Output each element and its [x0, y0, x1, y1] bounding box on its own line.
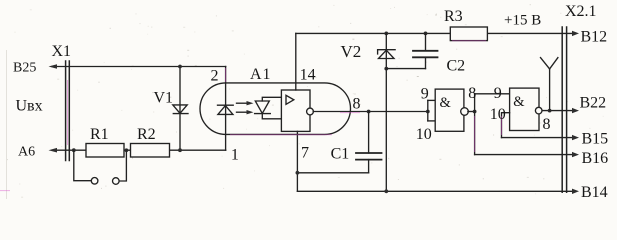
node V2 on bottom rail	[384, 189, 388, 193]
svg-text:Uвх: Uвх	[16, 98, 43, 115]
node C2 top on rail	[424, 32, 428, 36]
light arrow 2	[237, 110, 254, 114]
diode V1 vertical wire	[179, 67, 181, 151]
zener V2 vertical wire	[385, 33, 387, 191]
output inversion bubble of A1	[307, 108, 314, 115]
LED of A1	[218, 105, 234, 114]
light arrow 1	[237, 101, 254, 105]
svg-text:C2: C2	[447, 58, 466, 75]
resistor R1	[86, 144, 124, 158]
svg-text:&: &	[440, 95, 452, 111]
jumper contacts wire (right drop)	[119, 150, 126, 181]
arrow into B16	[572, 152, 579, 157]
svg-text:R2: R2	[137, 126, 156, 143]
svg-text:X1: X1	[52, 43, 72, 60]
node on B22 wire	[548, 109, 552, 113]
pin B25 arrow	[49, 64, 58, 69]
connector X2.1 (double line)	[562, 27, 566, 192]
bottom ground rail	[297, 190, 571, 192]
svg-text:А6: А6	[18, 145, 35, 160]
svg-text:В15: В15	[582, 131, 609, 148]
NAND gate D1.1 box	[435, 89, 464, 131]
svg-text:8: 8	[468, 85, 476, 102]
svg-text:В14: В14	[581, 184, 608, 199]
svg-text:А1: А1	[250, 66, 272, 83]
node gate D1.1 output	[473, 110, 477, 114]
svg-text:8: 8	[543, 116, 551, 133]
svg-text:В16: В16	[582, 150, 609, 167]
NAND gate D1.2 box	[510, 88, 539, 130]
jumper contact circle right	[113, 178, 120, 185]
svg-text:&: &	[513, 94, 525, 110]
resistor R2	[131, 144, 170, 158]
diode V1	[173, 105, 188, 114]
wire to gate D1.2 pin 9	[475, 93, 510, 95]
svg-text:В25: В25	[13, 60, 36, 75]
arrow into B14	[572, 189, 579, 194]
arrow into B22	[572, 108, 579, 113]
resistor R3	[450, 27, 487, 41]
jumper contact circle left	[91, 178, 98, 185]
wire gate D1.2 output to B22	[543, 110, 572, 112]
svg-text:9: 9	[494, 85, 502, 102]
photodiode of A1	[255, 97, 282, 119]
svg-text:R1: R1	[90, 126, 109, 143]
wire B16 row	[475, 154, 572, 156]
magenta scan artifacts	[0, 41, 502, 191]
svg-text:14: 14	[300, 67, 316, 84]
arrow into B12	[572, 31, 579, 36]
connector X1 (double line)	[66, 61, 70, 161]
svg-text:+15 В: +15 В	[504, 13, 541, 29]
zener diode V2	[378, 50, 396, 59]
wire B25 row	[52, 66, 226, 68]
page fold faint line	[6, 50, 8, 199]
svg-text:X2.1: X2.1	[565, 3, 597, 20]
svg-text:В12: В12	[581, 28, 608, 45]
buffer triangle symbol	[286, 95, 294, 104]
svg-text:R3: R3	[444, 8, 463, 25]
arrow into B15	[572, 135, 579, 140]
jumper contacts wire (left drop)	[74, 150, 91, 181]
pin A6 arrow	[49, 148, 58, 153]
svg-text:10: 10	[416, 126, 432, 143]
capacitor C1	[296, 110, 382, 175]
svg-text:V1: V1	[154, 89, 174, 106]
node junction left of R1	[72, 148, 76, 152]
gate D1.1 output bubble	[461, 108, 469, 116]
node V1 top	[178, 65, 182, 69]
scan noise speckles	[6, 4, 604, 198]
node V2/C2 bottom junction	[384, 67, 388, 71]
top +15V rail	[296, 32, 451, 34]
antenna stub symbol	[541, 58, 558, 111]
wire pin 8 output row	[313, 111, 428, 113]
svg-text:C1: C1	[331, 145, 350, 162]
node junction between R1 and R2	[125, 148, 129, 152]
wire pin 14 vertical	[295, 33, 297, 90]
gate D1.2 pin 10 wire	[502, 113, 510, 138]
node V2 top on rail	[384, 32, 388, 36]
wire pin 7 vertical	[296, 131, 298, 191]
output buffer box of A1	[281, 90, 310, 131]
svg-text:В22: В22	[580, 95, 607, 112]
wire pin 2 / pin 1 vertical	[225, 67, 227, 151]
gate D1.1 input junction	[426, 110, 430, 114]
svg-text:V2: V2	[341, 42, 362, 61]
capacitor C2	[386, 33, 437, 68]
node V1 bottom	[178, 148, 182, 152]
svg-text:8: 8	[353, 96, 361, 113]
wire A6 row	[52, 149, 226, 151]
wire output branch vertical	[474, 94, 476, 155]
svg-text:9: 9	[421, 86, 429, 103]
svg-text:7: 7	[301, 145, 309, 162]
optocoupler A1 body (stadium)	[200, 83, 351, 134]
wire B15 row	[502, 137, 572, 139]
svg-text:1: 1	[231, 146, 239, 163]
gate D1.2 output bubble	[535, 107, 542, 114]
svg-text:10: 10	[490, 106, 506, 123]
gate D1.1 input fork	[428, 100, 435, 121]
wire gate D1.1 output	[468, 111, 475, 113]
svg-text:2: 2	[211, 67, 219, 84]
